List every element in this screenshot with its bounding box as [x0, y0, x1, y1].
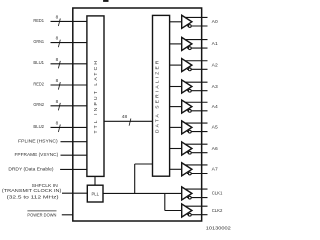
wire A2 inverting output	[187, 68, 208, 70]
wire serializer to A0 driver	[170, 21, 182, 23]
LVDS driver A6	[182, 142, 192, 155]
wire GRN2 bus input	[51, 105, 87, 107]
svg-text:GRN1: GRN1	[33, 39, 44, 45]
svg-text:GRN2: GRN2	[33, 102, 44, 108]
outer box	[73, 8, 202, 221]
wire RED1 bus input	[51, 20, 87, 22]
LVDS driver A3	[182, 80, 192, 93]
bus slash BLU2	[58, 125, 60, 133]
wire A3 inverting output	[187, 90, 208, 92]
wire A4 noninverting output	[184, 101, 208, 103]
svg-text:A7: A7	[212, 167, 218, 173]
TTL INPUT LATCH block	[87, 16, 104, 177]
wire A0 inverting output	[187, 25, 208, 27]
wire serializer to A1 driver	[170, 43, 182, 45]
svg-text:RED2: RED2	[33, 81, 44, 87]
wire A4 inverting output	[187, 110, 208, 112]
wire serializer to A4 driver	[170, 106, 182, 108]
svg-text:8: 8	[56, 78, 59, 84]
wire CLK1 inverting output	[187, 197, 208, 199]
wire A6 inverting output	[187, 152, 208, 154]
cropped title fragment	[103, 0, 108, 2]
svg-text:BLU2: BLU2	[33, 124, 44, 130]
svg-text:A4: A4	[212, 104, 218, 110]
bus slash GRN1	[58, 40, 60, 48]
svg-text:8: 8	[56, 36, 59, 42]
svg-text:FPFRAME (VSYNC): FPFRAME (VSYNC)	[15, 152, 59, 158]
inverting bubble A4	[188, 109, 191, 112]
wire latch to PLL	[94, 176, 96, 185]
wire BLU2 bus input	[51, 126, 87, 128]
wire PLL to serializer branch	[134, 164, 136, 193]
LVDS driver CLK2	[182, 204, 192, 217]
bus slash RED1	[58, 19, 60, 27]
svg-text:DRDY (Data Enable): DRDY (Data Enable)	[8, 166, 54, 172]
svg-text:8: 8	[56, 121, 59, 127]
inverting bubble CLK2	[188, 213, 191, 216]
wire SHFCLK IN to PLL	[62, 192, 87, 194]
wire 48-bit bus latch to serializer	[104, 120, 153, 122]
LVDS driver A5	[182, 121, 192, 134]
wire RED2 bus input	[51, 84, 87, 86]
LVDS driver A1	[182, 37, 192, 50]
LVDS driver A0	[182, 15, 192, 28]
wire A1 inverting output	[187, 47, 208, 49]
svg-text:48: 48	[122, 114, 128, 120]
DATA SERIALIZER block	[153, 15, 170, 176]
PLL block	[87, 185, 103, 202]
bus slash GRN2	[58, 103, 60, 111]
wire serializer to A2 driver	[170, 64, 182, 66]
wire PLL output	[103, 192, 182, 194]
wire A2 noninverting output	[184, 60, 208, 62]
svg-text:(TRANSMIT CLOCK IN): (TRANSMIT CLOCK IN)	[2, 188, 62, 194]
svg-text:FPLINE (HSYNC): FPLINE (HSYNC)	[18, 139, 58, 145]
bus slash BLU1	[58, 61, 60, 69]
wire POWER DOWN input	[62, 214, 73, 216]
LVDS driver CLK1	[182, 187, 192, 200]
svg-text:10130002: 10130002	[206, 226, 232, 231]
inverting bubble A0	[188, 25, 191, 28]
svg-text:A5: A5	[212, 125, 218, 131]
wire A0 noninverting output	[184, 16, 208, 18]
svg-text:A2: A2	[212, 62, 218, 68]
wire A7 inverting output	[187, 173, 208, 175]
wire FPLINE input	[61, 141, 87, 143]
LVDS driver A7	[182, 163, 192, 176]
wire GRN1 bus input	[51, 42, 87, 44]
wire DRDY input	[60, 168, 87, 170]
inverting bubble A6	[188, 151, 191, 154]
svg-text:A1: A1	[212, 41, 218, 47]
svg-text:BLU1: BLU1	[33, 60, 44, 66]
wire A1 noninverting output	[184, 39, 208, 41]
wire serializer to A5 driver	[170, 126, 182, 128]
bus slash RED2	[58, 82, 60, 90]
svg-text:A0: A0	[212, 19, 218, 25]
wire BLU1 bus input	[51, 63, 87, 65]
wire A6 noninverting output	[184, 143, 208, 145]
LVDS driver A2	[182, 59, 192, 72]
svg-text:SHFCLK IN: SHFCLK IN	[32, 183, 59, 189]
svg-text:RED1: RED1	[33, 18, 44, 24]
svg-text:PLL: PLL	[91, 191, 99, 197]
inverting bubble A7	[188, 172, 191, 175]
svg-text:A3: A3	[212, 84, 218, 90]
svg-text:8: 8	[56, 57, 59, 63]
inverting bubble A1	[188, 47, 191, 50]
wire serializer to A7 driver	[170, 168, 182, 170]
wire A3 noninverting output	[184, 81, 208, 83]
inverting bubble A2	[188, 68, 191, 71]
wire CLK2 noninverting output	[184, 205, 208, 207]
wire A5 noninverting output	[184, 122, 208, 124]
wire serializer to A3 driver	[170, 86, 182, 88]
inverting bubble A5	[188, 130, 191, 133]
inverting bubble CLK1	[188, 196, 191, 199]
wire PLL to CLK2 driver branch	[164, 193, 166, 210]
wire CLK2 inverting output	[187, 214, 208, 216]
wire serializer to A6 driver	[170, 148, 182, 150]
svg-text:8: 8	[56, 15, 59, 21]
svg-text:A6: A6	[212, 146, 218, 152]
svg-text:POWER DOWN: POWER DOWN	[27, 212, 56, 218]
svg-text:CLK1: CLK1	[212, 191, 223, 197]
LVDS driver A4	[182, 100, 192, 113]
bus slash 48	[129, 119, 131, 126]
svg-text:CLK2: CLK2	[212, 208, 223, 214]
wire FPFRAME input	[61, 154, 87, 156]
inverting bubble A3	[188, 89, 191, 92]
wire A5 inverting output	[187, 131, 208, 133]
svg-text:(32.5 to 112 MHz): (32.5 to 112 MHz)	[7, 195, 60, 201]
svg-text:8: 8	[56, 99, 59, 105]
wire CLK1 noninverting output	[184, 188, 208, 190]
wire A7 noninverting output	[184, 164, 208, 166]
